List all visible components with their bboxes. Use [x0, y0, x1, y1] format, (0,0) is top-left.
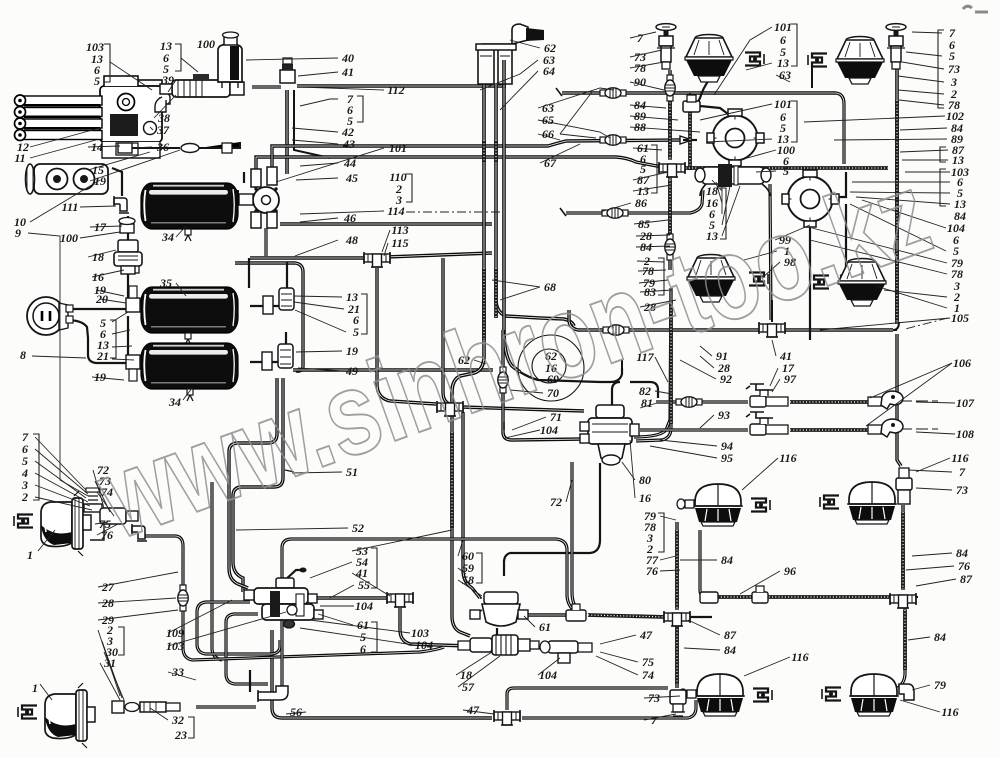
- front brake chamber 1 upper: [41, 491, 91, 556]
- svg-text:87: 87: [960, 572, 973, 586]
- two-section valve 100: [695, 164, 771, 196]
- wire R2 top stub: [809, 168, 811, 176]
- svg-text:47: 47: [639, 628, 653, 642]
- svg-text:19: 19: [94, 370, 106, 384]
- wire x670 mid drop: [668, 176, 671, 270]
- wire bundle pipe C: [504, 60, 520, 372]
- svg-text:33: 33: [171, 665, 184, 679]
- valve 73 right: [896, 468, 912, 504]
- svg-text:73: 73: [948, 62, 960, 76]
- wire pipe 107 feed: [656, 400, 748, 403]
- chamber valve 72-76: [84, 488, 138, 540]
- elbow 27 front: [132, 524, 147, 541]
- wire R2 right stub: [832, 172, 846, 197]
- wire pipe 56 drop: [272, 630, 492, 718]
- fitting 19-20 tank2: [263, 288, 294, 314]
- wire pipe 90 run: [562, 91, 836, 94]
- port service chamber a3l: [677, 499, 694, 509]
- svg-text:96: 96: [784, 564, 796, 578]
- fitting 13-21 tank3: [262, 344, 293, 370]
- coupling 28 mid: [603, 325, 629, 335]
- wire pipe 48 to tee113: [386, 253, 492, 257]
- wire pipe 86 run: [566, 190, 703, 213]
- tee R1 top: [683, 95, 700, 112]
- svg-text:47: 47: [466, 703, 480, 717]
- svg-text:73: 73: [648, 691, 660, 705]
- svg-text:46: 46: [343, 211, 356, 225]
- svg-text:107: 107: [956, 396, 975, 410]
- coupling 28 hose107: [676, 397, 702, 407]
- filter fitting 18-57: [458, 635, 539, 655]
- pressure gauge 8: [27, 297, 73, 335]
- wire tank interconnect mid: [127, 272, 129, 300]
- svg-text:11: 11: [14, 151, 25, 165]
- wire valve58 top feed: [480, 597, 482, 599]
- svg-text:109: 109: [166, 626, 184, 640]
- wire right trailer line down: [897, 334, 901, 466]
- fitting left tank2: [126, 286, 140, 312]
- svg-text:84: 84: [721, 553, 733, 567]
- wire tank3 riser: [285, 332, 287, 347]
- svg-text:7: 7: [637, 31, 644, 45]
- svg-text:76: 76: [646, 564, 658, 578]
- wire pipe 90 elbow down: [836, 93, 844, 164]
- svg-text:104: 104: [539, 668, 557, 682]
- tee 47 bottom: [494, 710, 520, 725]
- hand valve 7 left: [656, 24, 676, 69]
- wire pipe 53 vertical x443: [443, 258, 450, 404]
- svg-text:100: 100: [197, 37, 215, 51]
- spring brake chamber mid-right: [838, 259, 886, 307]
- fitting 31-32: [112, 701, 180, 713]
- air tank 35: [141, 287, 238, 333]
- svg-text:104: 104: [415, 638, 433, 652]
- regulator R1: [707, 109, 764, 166]
- svg-text:43: 43: [342, 137, 355, 151]
- service chamber 116 axle3-right: [847, 482, 897, 524]
- wire pipe 46 drop: [264, 228, 267, 256]
- hand brake crane 62: [476, 24, 544, 84]
- svg-text:87: 87: [724, 628, 737, 642]
- spring brake chamber mid-left: [687, 255, 735, 303]
- svg-text:84: 84: [934, 630, 946, 644]
- fork chamber a3r: [820, 496, 839, 509]
- wire gauge pipe lower: [66, 320, 127, 363]
- svg-text:66: 66: [542, 127, 554, 141]
- svg-text:104: 104: [540, 423, 558, 437]
- hose x452 braided: [450, 432, 454, 528]
- wire pipe 92 run: [630, 382, 658, 398]
- wire R1 tee up stub: [689, 93, 691, 100]
- fork chamber a3l: [751, 499, 770, 512]
- svg-text:113: 113: [391, 223, 408, 237]
- wire R1 top link: [700, 106, 728, 114]
- wire LC1 left elbow drop: [675, 522, 678, 610]
- svg-text:108: 108: [956, 427, 974, 441]
- svg-text:1: 1: [27, 548, 33, 562]
- hose x677 braided: [675, 530, 679, 608]
- svg-text:5: 5: [783, 164, 789, 178]
- fitting 17-100: [119, 218, 135, 234]
- svg-text:52: 52: [352, 521, 364, 535]
- fork front chamber upper: [14, 515, 33, 528]
- drain valve tank34: [185, 229, 191, 241]
- tee 103-104 bottom: [540, 641, 592, 663]
- wire tee113 down pipe: [377, 268, 436, 404]
- wire front axle line 27: [140, 536, 444, 660]
- tee 113: [364, 252, 390, 267]
- hose 89 braided drop: [688, 110, 692, 170]
- svg-text:76: 76: [101, 528, 113, 542]
- coupling 70: [498, 367, 508, 393]
- svg-text:40: 40: [341, 51, 354, 65]
- air tank 34b: [141, 343, 238, 389]
- power steering pump 10: [26, 164, 109, 194]
- svg-text:55: 55: [358, 578, 370, 592]
- svg-text:44: 44: [343, 156, 356, 170]
- wire valve80 bottom drop: [504, 463, 600, 576]
- svg-text:73: 73: [956, 483, 968, 497]
- brake valve 18: [114, 240, 142, 274]
- wire coupling70 riser: [503, 330, 584, 440]
- svg-text:35: 35: [159, 276, 172, 290]
- svg-text:116: 116: [791, 650, 808, 664]
- hose 84 left vertical: [668, 96, 672, 158]
- svg-text:57: 57: [462, 680, 475, 694]
- fork top-left chamber: [745, 53, 764, 66]
- wire tank1 top riser: [243, 172, 245, 183]
- fork mid-left chamber: [749, 273, 768, 286]
- svg-text:20: 20: [95, 292, 108, 306]
- wire pipe 77 drop: [572, 462, 586, 615]
- svg-text:76: 76: [958, 559, 970, 573]
- wire pipe 86 cut: [560, 208, 566, 216]
- svg-text:7: 7: [959, 465, 966, 479]
- wire R1 left feed: [683, 139, 697, 141]
- wire valve7R drop: [895, 67, 899, 324]
- svg-text:81: 81: [641, 396, 653, 410]
- wire UC1 bottom drop: [697, 80, 709, 104]
- svg-text:116: 116: [951, 451, 968, 465]
- coupling 90: [665, 75, 675, 101]
- wire LC2 valve drop: [901, 505, 904, 590]
- wire pipe 85 run y330: [569, 310, 893, 330]
- svg-text:93: 93: [718, 408, 730, 422]
- tee x677: [664, 611, 690, 626]
- wire R2 right elbow drop: [840, 204, 846, 276]
- wire R2 bottom drop: [809, 222, 811, 340]
- wire valve58 bottom: [496, 628, 498, 636]
- svg-text:115: 115: [391, 236, 408, 250]
- watermark www.sinhron-too.kz: [82, 147, 946, 565]
- svg-text:80: 80: [639, 473, 651, 487]
- wire tank2 riser: [286, 262, 288, 290]
- fitting left tank3: [126, 355, 140, 381]
- svg-text:111: 111: [62, 200, 79, 214]
- wire trailer valve out 55: [312, 596, 388, 599]
- coupling 66: [600, 135, 626, 145]
- svg-text:67: 67: [544, 156, 557, 170]
- wire pipe 48 run: [250, 256, 368, 259]
- elbow chamber a4r: [899, 684, 914, 700]
- wire tank interconnect lower: [127, 316, 129, 360]
- hose y617 braided: [588, 615, 666, 617]
- leader 105 dash-dot: [905, 318, 948, 329]
- svg-text:39: 39: [161, 73, 174, 87]
- svg-text:31: 31: [103, 656, 116, 670]
- tee 47-28: [437, 401, 463, 416]
- svg-text:16: 16: [639, 491, 651, 505]
- wire pipe 45 run: [272, 140, 680, 167]
- wire dryer to filter line: [252, 85, 281, 88]
- svg-text:21: 21: [96, 349, 109, 363]
- safety valve 41: [280, 58, 295, 83]
- elbow 32 lower: [258, 686, 288, 702]
- svg-text:8: 8: [20, 348, 26, 362]
- wire compressor to dryer: [160, 91, 172, 97]
- wire MC1 fork drop: [771, 300, 773, 322]
- coupling 63 top: [600, 88, 626, 98]
- svg-text:5: 5: [949, 49, 955, 63]
- fork mid-right chamber: [810, 276, 829, 289]
- svg-text:16: 16: [92, 270, 104, 284]
- elbow 16 left: [127, 262, 139, 273]
- wire y617 arm right: [690, 616, 712, 618]
- detail circle 62-16-69: [518, 335, 584, 401]
- hose 84 mid-left: [669, 300, 673, 424]
- wire x897 to MC2: [893, 322, 899, 330]
- wire bundle pipe B: [496, 84, 574, 326]
- elbow 111: [114, 196, 129, 213]
- hose y617 end fitting: [566, 604, 586, 621]
- wire y330 right elbow: [893, 329, 897, 331]
- spring brake chamber top-left: [685, 35, 733, 83]
- svg-text:28: 28: [101, 596, 114, 610]
- svg-text:9: 9: [15, 226, 21, 240]
- wire tank1 down link: [248, 258, 250, 288]
- hand valve 7 right: [886, 24, 906, 69]
- svg-text:18: 18: [92, 250, 104, 264]
- svg-text:63: 63: [779, 68, 791, 82]
- hose coupler 108: [746, 412, 938, 437]
- service chamber 116 axle4-left: [695, 674, 745, 716]
- brake valve 80: [580, 405, 639, 465]
- wire valve100 right drop: [770, 184, 771, 320]
- wire pipe 52 S-route: [229, 378, 277, 588]
- compressor 12: [15, 76, 171, 158]
- wire tank interconnect upper: [127, 216, 129, 240]
- trailer brake valve: [244, 568, 323, 629]
- wire pipe 51 S-route: [233, 378, 283, 592]
- wire pipe from valve41 down: [294, 90, 330, 158]
- svg-text:58: 58: [462, 573, 474, 587]
- wire y597 tee arm: [910, 596, 918, 598]
- wire pipe 52b vertical: [212, 482, 222, 660]
- svg-text:84: 84: [956, 546, 968, 560]
- svg-text:19: 19: [94, 174, 106, 188]
- wire staircase U pipe: [226, 614, 268, 684]
- wire valve80 top stub: [612, 382, 620, 407]
- regulator R2: [782, 170, 839, 227]
- wire elbow111 riser: [112, 168, 122, 196]
- coupling 86: [602, 208, 628, 218]
- svg-text:74: 74: [642, 668, 654, 682]
- wire staircase pipe b: [197, 602, 280, 654]
- wire pipe 33 riser: [282, 539, 586, 688]
- air filter 40: [218, 32, 242, 88]
- svg-text:48: 48: [345, 233, 358, 247]
- hose 84 right vertical: [895, 100, 899, 240]
- wire tank3 right stub: [250, 361, 278, 363]
- hose 107 braided: [790, 400, 868, 404]
- wire pipe 56 right run: [522, 700, 696, 718]
- wire tank2 right stub: [250, 305, 280, 307]
- wire UC2 fork drop: [811, 64, 813, 88]
- svg-text:90: 90: [634, 75, 646, 89]
- coupling 28 left: [178, 585, 188, 611]
- svg-text:103: 103: [166, 639, 184, 653]
- fork chamber a4r: [822, 688, 841, 701]
- svg-text:100: 100: [60, 231, 78, 245]
- svg-text:105: 105: [951, 311, 969, 325]
- svg-text:106: 106: [953, 356, 971, 370]
- svg-text:23: 23: [174, 728, 187, 742]
- svg-text:64: 64: [543, 64, 555, 78]
- svg-text:34: 34: [161, 230, 174, 244]
- wire pipe 90 cut: [556, 88, 562, 96]
- leader 114 dash-dot: [406, 211, 500, 213]
- svg-text:7: 7: [651, 713, 658, 727]
- svg-text:1: 1: [32, 681, 38, 695]
- svg-text:101: 101: [774, 97, 792, 111]
- corner mark: [963, 6, 988, 12]
- wire tee41 down: [400, 608, 468, 646]
- svg-text:95: 95: [721, 451, 733, 465]
- svg-text:6: 6: [360, 642, 366, 656]
- svg-text:2: 2: [21, 490, 28, 504]
- svg-text:104: 104: [355, 599, 373, 613]
- svg-text:14: 14: [91, 140, 103, 154]
- wire pipe 42/43 vertical: [285, 90, 289, 174]
- svg-text:36: 36: [156, 140, 169, 154]
- svg-text:86: 86: [635, 196, 647, 210]
- wire pipe 93 run: [503, 422, 505, 430]
- hose x905 braided lower: [903, 610, 907, 670]
- wire pipe 91 feed: [520, 368, 622, 382]
- fork front chamber lower: [18, 706, 37, 719]
- svg-text:84: 84: [724, 643, 736, 657]
- hose 68 right rib2: [494, 268, 498, 318]
- wire tee47 to valve80 upper: [462, 407, 584, 411]
- wire x903 tee drop: [898, 608, 905, 688]
- tee 41 mid: [759, 322, 785, 337]
- wire front chamber2 line: [196, 705, 256, 708]
- tee x903: [890, 593, 916, 608]
- hose x905 braided: [901, 512, 905, 588]
- wire tee47b riser: [507, 688, 668, 710]
- svg-text:101: 101: [389, 141, 407, 155]
- tee x670: [659, 162, 685, 177]
- condensate tank 34: [141, 183, 238, 229]
- drain valve tank34b: [187, 389, 193, 401]
- svg-text:56: 56: [290, 705, 302, 719]
- fork chamber a4l: [753, 689, 772, 702]
- fork top-right chamber: [808, 54, 827, 67]
- front brake chamber 1 lower: [45, 683, 95, 748]
- svg-text:116: 116: [779, 451, 796, 465]
- svg-text:5: 5: [94, 74, 100, 88]
- service chamber 116 axle4-right: [849, 674, 899, 716]
- hose 68 left rib2: [482, 268, 486, 340]
- svg-text:41: 41: [341, 65, 354, 79]
- hose braided y168: [676, 166, 888, 170]
- wire gauge pipe upper: [66, 308, 127, 310]
- svg-text:116: 116: [941, 705, 958, 719]
- hose 84 left vertical lower: [668, 180, 672, 240]
- wire pipe 82 elbow: [621, 360, 623, 368]
- wire valve58 right out: [524, 613, 586, 616]
- svg-text:78: 78: [634, 61, 646, 75]
- hose 108 braided: [790, 428, 868, 432]
- svg-text:72: 72: [550, 495, 562, 509]
- tee 41 bottom: [387, 592, 413, 607]
- svg-text:75: 75: [642, 655, 654, 669]
- svg-text:45: 45: [345, 171, 358, 185]
- wire arrow 51: [285, 470, 294, 472]
- svg-text:97: 97: [784, 372, 797, 386]
- svg-text:32: 32: [171, 713, 184, 727]
- wire pipe 93 feed: [640, 428, 748, 431]
- svg-text:37: 37: [156, 123, 170, 137]
- wire pipe 46 run: [280, 222, 492, 225]
- svg-text:27: 27: [101, 580, 115, 594]
- air dryer 38: [155, 74, 244, 112]
- port service chamber a4l: [679, 689, 696, 699]
- hose coupler 107: [746, 384, 938, 409]
- wire x677 tee drop: [675, 624, 678, 688]
- valve 7-73 bottom: [670, 690, 686, 716]
- four-circuit protection valve 101: [231, 167, 279, 228]
- wire bundle pipe A: [452, 84, 484, 404]
- svg-text:114: 114: [387, 204, 404, 218]
- svg-text:61: 61: [539, 620, 551, 634]
- svg-text:5: 5: [353, 325, 359, 339]
- hose 96 braided: [708, 595, 896, 599]
- wire valve80 down x452: [452, 410, 470, 636]
- wire pipe 112 top run: [297, 84, 506, 87]
- wire valve80 right return: [634, 290, 671, 437]
- wire valve7L drop: [668, 70, 671, 160]
- hose 68 right rib1: [494, 140, 498, 162]
- svg-text:88: 88: [634, 120, 646, 134]
- hose 68 left rib1: [482, 140, 486, 162]
- svg-text:17: 17: [94, 220, 107, 234]
- svg-text:112: 112: [387, 83, 404, 97]
- svg-text:101: 101: [774, 20, 792, 34]
- wire pipe 44 run: [256, 157, 662, 170]
- svg-text:79: 79: [934, 678, 946, 692]
- wire LC1 bottom drop: [700, 530, 708, 597]
- wire crane pipe left: [485, 83, 487, 85]
- drain valve tank35: [185, 333, 191, 345]
- wire pipe 49 run: [293, 368, 493, 371]
- service chamber 116 axle3-left: [693, 484, 743, 526]
- wire arrow to R1: [680, 136, 692, 144]
- svg-text:92: 92: [720, 372, 732, 386]
- hose x677 braided lower: [675, 626, 679, 684]
- wire pipe 60 vertical: [463, 412, 480, 598]
- svg-text:65: 65: [542, 113, 554, 127]
